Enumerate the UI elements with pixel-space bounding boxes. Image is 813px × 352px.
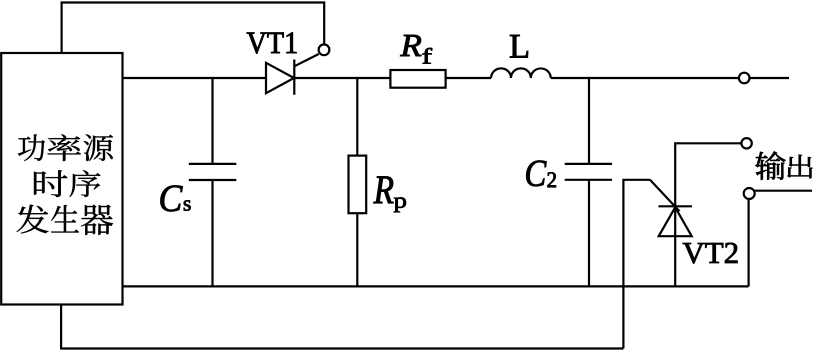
wire: top rail to C2: [588, 78, 590, 164]
label Rp: subscript p: [394, 198, 406, 213]
wire: L to upper output terminal: [551, 77, 739, 79]
wire: lower output stub right: [755, 190, 812, 192]
output label char 输: [755, 151, 785, 179]
thyristor VT2 cathode bar: [659, 205, 693, 207]
wire: VT2 cathode up and right to mid output terminal: [675, 143, 741, 286]
wire: Rf to L: [446, 77, 492, 79]
wire: C2 to bottom rail: [588, 180, 590, 287]
lower output terminal circle: [744, 188, 755, 199]
thyristor VT2 gate lead diagonal: [650, 180, 680, 212]
wire: top rail to Rp: [356, 78, 358, 156]
label Rf: subscript f: [422, 48, 432, 64]
mid output terminal circle (VT2 side): [741, 138, 751, 148]
inductor L: [491, 68, 551, 78]
capacitor Cs top plate: [189, 163, 237, 165]
thyristor VT1 cathode bar: [293, 60, 295, 95]
wire: VT2 gate left and down to bottom return: [623, 180, 650, 349]
wire: VT1 cathode to Rf: [294, 77, 390, 79]
box label char 序: [70, 170, 101, 197]
resistor Rp body: [349, 156, 367, 214]
thyristor VT2 triangle: [659, 207, 692, 236]
box label char 生: [51, 205, 79, 232]
label C2: C: [526, 161, 546, 187]
thyristor VT1 gate lead: [294, 54, 318, 66]
wire: top rail to Cs: [211, 78, 213, 164]
wire: Rp to bottom rail: [356, 213, 358, 286]
box label char 器: [81, 205, 113, 235]
label Rp: R: [374, 176, 394, 203]
wire: box right to VT1 anode: [123, 77, 267, 79]
box label char 功: [18, 134, 45, 161]
wire: lower output terminal down to bottom rail: [747, 199, 749, 287]
wire: box top to VT1 gate terminal (top loop): [62, 3, 325, 54]
label VT2: [683, 243, 738, 264]
label Cs: subscript s: [184, 200, 191, 210]
label Rf: R: [400, 35, 421, 56]
thyristor VT1 triangle: [266, 63, 294, 93]
label Cs: C: [161, 185, 183, 211]
wire: stub right of upper output terminal: [749, 77, 789, 79]
label L: [510, 35, 528, 58]
resistor Rf body: [390, 70, 445, 88]
output label char 出: [787, 155, 812, 178]
label C2: subscript 2: [548, 172, 556, 187]
box label char 时: [34, 170, 67, 197]
upper output terminal circle: [739, 73, 750, 84]
wire: bottom return to box bottom: [61, 305, 623, 349]
box label char 率: [47, 134, 80, 161]
wire: Cs to bottom rail: [211, 180, 213, 286]
capacitor C2 top plate: [565, 163, 612, 165]
label VT1: [247, 32, 297, 53]
capacitor C2 bottom plate: [565, 179, 612, 181]
wire: bottom rail: [123, 285, 749, 287]
thyristor VT1 gate terminal circle: [319, 44, 330, 55]
capacitor Cs bottom plate: [189, 179, 237, 181]
box label char 发: [16, 205, 48, 234]
box label char 源: [83, 134, 112, 161]
power-source timing generator block U1: [1, 53, 122, 305]
